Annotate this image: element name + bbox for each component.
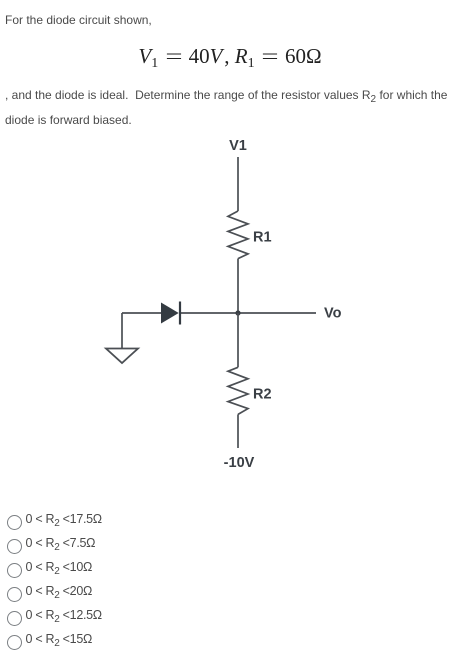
diode — [161, 302, 180, 325]
svg-text:R2: R2 — [253, 387, 272, 403]
node junction dot — [235, 310, 240, 315]
svg-text:-10V: -10V — [224, 455, 255, 471]
resistor R1 — [228, 211, 248, 259]
wire ground corner to diode — [122, 312, 161, 314]
wire R1 to node — [237, 259, 239, 313]
wire corner down to ground — [121, 313, 123, 348]
svg-text:R1: R1 — [253, 230, 272, 246]
wire R2 to -10V — [237, 414, 239, 448]
wire V1 to R1 — [237, 157, 239, 211]
ground — [106, 349, 138, 364]
resistor R2 — [228, 367, 248, 414]
wire node to R2 — [237, 313, 239, 367]
svg-text:V1: V1 — [229, 138, 247, 154]
svg-text:Vo: Vo — [324, 306, 342, 322]
wire diode to Vo — [180, 312, 316, 314]
